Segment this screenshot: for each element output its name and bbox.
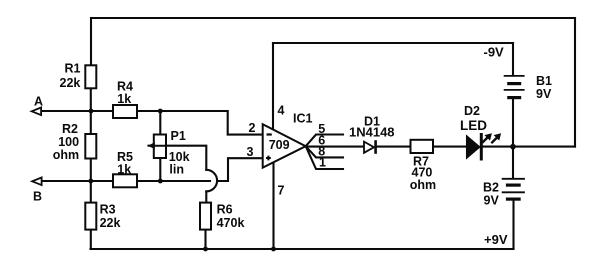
resistor R4 — [113, 105, 137, 118]
resistor R6 — [200, 203, 211, 230]
svg-text:9V: 9V — [536, 87, 552, 101]
svg-text:R1: R1 — [65, 62, 81, 76]
terminal A arrow — [32, 108, 41, 116]
battery B2 — [502, 179, 525, 199]
wire B1 top lead — [512, 43, 514, 76]
svg-text:D2: D2 — [464, 104, 480, 118]
svg-text:-9V: -9V — [484, 45, 505, 60]
node R6 bottom junction — [203, 247, 208, 252]
op-amp plus input mark — [266, 156, 271, 161]
svg-text:+9V: +9V — [484, 232, 508, 247]
wire node A-junction to pin2 bend — [160, 111, 262, 135]
svg-text:470k: 470k — [217, 216, 245, 230]
wire R2 bottom lead — [90, 159, 92, 203]
potentiometer P1 — [148, 135, 167, 159]
node pin7 bottom junction — [271, 247, 276, 252]
diode D1 — [364, 140, 376, 154]
wire P1 bottom lead — [159, 158, 161, 181]
resistor R5 — [113, 174, 137, 187]
wire R3 bottom lead — [90, 230, 92, 249]
wire hop over B line — [206, 170, 217, 192]
wire top rail — [91, 17, 575, 19]
wire inner top rail (pin4 to B1) — [273, 42, 513, 44]
wire pin 1 stub — [306, 146, 343, 169]
wire D1 to R7 — [377, 146, 411, 148]
battery B1 — [504, 76, 525, 98]
svg-text:1k: 1k — [117, 162, 131, 176]
wire node X to right edge — [513, 146, 575, 148]
wire A line right of R4 — [137, 110, 160, 112]
svg-text:7: 7 — [278, 184, 285, 198]
node B junction at P1 bottom — [158, 179, 163, 184]
svg-text:R3: R3 — [100, 203, 116, 217]
wire R7 to D2 — [433, 146, 467, 148]
node A junction at P1 top — [158, 109, 163, 114]
wire right edge drop — [574, 18, 576, 147]
svg-text:ohm: ohm — [410, 178, 436, 192]
wire B2 top lead — [512, 147, 514, 179]
svg-text:1N4148: 1N4148 — [349, 125, 395, 140]
svg-text:R2: R2 — [62, 122, 78, 136]
svg-text:22k: 22k — [100, 216, 121, 230]
svg-text:ohm: ohm — [53, 148, 79, 162]
resistor R3 — [85, 203, 96, 230]
svg-text:LED: LED — [460, 118, 487, 133]
svg-text:B: B — [33, 190, 42, 204]
svg-text:R6: R6 — [217, 203, 233, 217]
wire R1 bottom lead — [90, 88, 92, 134]
svg-text:3: 3 — [247, 145, 254, 159]
resistor R7 — [411, 140, 434, 153]
op-amp minus input mark — [267, 133, 272, 135]
wire hop to R6 — [205, 191, 207, 202]
svg-text:2: 2 — [249, 121, 256, 135]
svg-text:4: 4 — [278, 104, 285, 118]
LED D2 — [467, 133, 500, 161]
node A junction on left column — [89, 109, 94, 114]
wire R6 bottom lead — [204, 230, 206, 249]
wire P1 wiper to hop — [149, 146, 207, 170]
wire top-left drop to R1 — [90, 18, 92, 65]
wire pin 5 stub — [306, 135, 343, 147]
svg-text:1: 1 — [319, 156, 326, 170]
wire B line left — [43, 180, 114, 182]
wire pin 8 stub — [306, 146, 343, 157]
wire B line resume to pin3 — [217, 158, 263, 181]
node X junction (battery midpoint) — [510, 144, 516, 150]
wire B2 bottom lead — [512, 200, 514, 250]
svg-text:9V: 9V — [484, 193, 500, 207]
wire bottom rail — [91, 248, 514, 250]
op-amp IC1 — [263, 124, 306, 167]
wire D2 to node X — [482, 146, 513, 148]
wire pin 4 vertical — [272, 43, 274, 130]
wire pin 7 vertical — [272, 162, 274, 249]
wire op-amp output to D1 — [306, 146, 364, 148]
wire B1 bottom lead — [512, 98, 514, 147]
svg-text:A: A — [34, 95, 43, 109]
svg-text:lin: lin — [169, 162, 184, 176]
terminal B arrow — [32, 178, 42, 186]
resistor R1 — [85, 65, 96, 88]
wire B line right of R5 — [137, 180, 210, 182]
wire P1 top lead — [159, 111, 161, 135]
svg-text:709: 709 — [269, 138, 290, 152]
wire A line left — [41, 110, 113, 112]
node B junction on left column — [88, 179, 93, 184]
svg-text:22k: 22k — [60, 76, 81, 90]
resistor R2 — [85, 134, 96, 159]
svg-text:IC1: IC1 — [293, 112, 313, 126]
svg-text:1k: 1k — [117, 92, 131, 106]
svg-text:P1: P1 — [171, 129, 186, 143]
